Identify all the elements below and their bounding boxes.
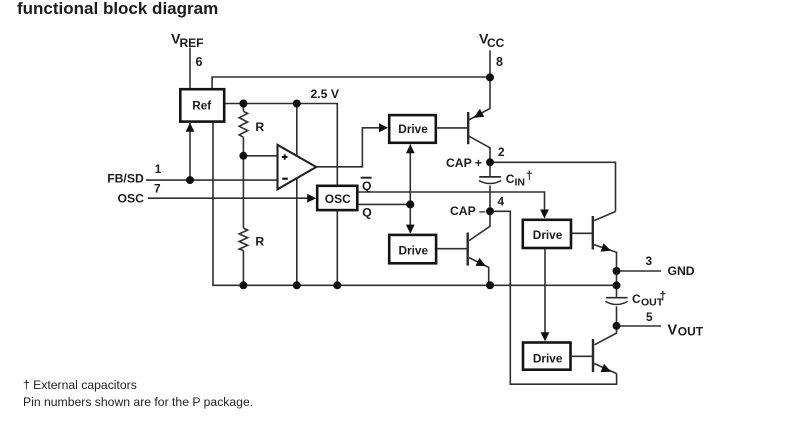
svg-text:†: † (660, 289, 667, 303)
wire Q from OSC to junction (357, 203, 410, 205)
capacitor COUT (605, 298, 627, 305)
wire VCC stub (489, 50, 491, 77)
junction node CAP- (486, 207, 494, 215)
transistor Q2 collector wire (469, 211, 490, 240)
junction node rail R2 (239, 281, 247, 289)
transistor Q4 base bar (592, 339, 594, 372)
block OSC (317, 186, 357, 210)
wire vertical from Drive3 to Drive4 (544, 249, 546, 333)
junction node VCC (486, 73, 494, 81)
transistor Q2 base bar (467, 233, 469, 266)
junction node Q to drives (406, 200, 414, 208)
block Drive4 (523, 343, 571, 370)
svg-text:Drive: Drive (398, 122, 428, 136)
svg-text:Drive: Drive (533, 228, 563, 242)
arrow into OSC input (307, 194, 316, 203)
wire op-amp + input (243, 155, 277, 157)
junction node GND pin (613, 267, 621, 275)
svg-text:OSC: OSC (118, 191, 145, 205)
wire OSC box bottom to ground rail (336, 210, 338, 285)
svg-text:FB/SD: FB/SD (107, 172, 144, 186)
wire FB/SD branch up to Ref bottom (189, 123, 191, 180)
svg-text:2: 2 (498, 145, 505, 159)
junction node FB/SD-Ref (186, 176, 194, 184)
wire CAP- node to Q4 emitter path (490, 211, 617, 384)
svg-text:CAP –: CAP – (450, 204, 486, 218)
block Drive2 (389, 235, 436, 263)
label COUT (632, 289, 666, 309)
svg-text:CAP +: CAP + (446, 156, 482, 170)
resistor R2 (239, 228, 247, 250)
wire CAP+ line to Q3 collector (490, 162, 616, 211)
wire Qbar from OSC to Drive3 (357, 192, 544, 210)
svg-text:C: C (506, 172, 515, 186)
footnote package note (23, 395, 253, 409)
wire Q1 base (437, 127, 467, 129)
junction node rail mid (293, 281, 301, 289)
transistor Q3 emitter arrow (NPN) (601, 243, 612, 252)
wire Q4 base (572, 355, 593, 357)
capacitor CIN (479, 177, 501, 184)
svg-text:CC: CC (487, 36, 505, 50)
transistor Q4 emitter arrow (NPN) (601, 364, 612, 372)
svg-text:6: 6 (196, 55, 203, 69)
wire FB/SD input to op-amp - input (146, 179, 278, 181)
svg-text:Drive: Drive (533, 351, 563, 365)
block Ref (180, 89, 224, 121)
svg-text:GND: GND (668, 264, 695, 278)
transistor Q3 base bar (592, 216, 594, 250)
block Drive3 (523, 220, 571, 248)
junction node op-amp + input (239, 152, 247, 160)
wire Ref ground and bottom rail (213, 121, 617, 285)
wire R divider chain stubs (242, 104, 244, 286)
svg-text:OUT: OUT (678, 324, 704, 338)
wire vertical between Drive1 and Drive2 (409, 145, 411, 234)
wire COUT bottom to VOUT node (616, 306, 618, 326)
junction node rail GND (613, 281, 621, 289)
svg-text:IN: IN (515, 177, 526, 189)
svg-text:Q: Q (362, 179, 371, 193)
transistor Q2 emitter arrow (NPN) (476, 258, 487, 266)
wire Q3 base (572, 232, 592, 234)
wire OSC pin input (148, 197, 309, 199)
junction node rail OSC (333, 281, 341, 289)
wire Q2 base (437, 248, 467, 250)
arrow into Ref bottom (186, 123, 195, 132)
title (17, 0, 218, 19)
label Qbar (361, 178, 372, 194)
transistor Q3 emitter wire (594, 245, 617, 271)
wire GND pin (617, 270, 662, 272)
wire op-amp output to Drive1 (316, 128, 380, 167)
label CIN (506, 169, 533, 189)
arrow into Drive2 top (406, 225, 415, 234)
svg-text:8: 8 (496, 55, 503, 69)
transistor Q1 emitter arrow (PNP) (474, 109, 485, 118)
arrow into Drive3 top (540, 210, 549, 219)
wire top rail from Ref box top to VCC node (212, 77, 490, 89)
op-amp U1 (278, 145, 317, 190)
transistor Q4 emitter wire (594, 364, 616, 374)
wire mid vertical from 2.5V line to rail (behind op-amp) (296, 104, 298, 286)
svg-text:REF: REF (180, 36, 204, 50)
junction node rail Q2 (486, 281, 494, 289)
transistor Q1 emitter wire (469, 77, 490, 120)
svg-text:Q: Q (362, 205, 371, 219)
arrow into Drive1 bottom (406, 144, 415, 153)
wire CIN top (489, 162, 491, 176)
label VCC (479, 32, 505, 50)
wire CIN bottom to CAP- node (489, 186, 491, 212)
arrow into Drive4 top (541, 332, 550, 341)
svg-text:5: 5 (646, 310, 653, 324)
svg-text:V: V (668, 323, 678, 339)
svg-text:OSC: OSC (325, 192, 351, 206)
wire Ref output to 2.5V node down to OSC top (225, 104, 338, 186)
svg-text:R: R (255, 234, 264, 248)
transistor Q4 collector wire (595, 326, 617, 345)
svg-text:1: 1 (155, 162, 162, 176)
transistor Q3 collector diagonal (594, 212, 616, 221)
junction node 2.5V mid (293, 100, 301, 108)
footnote external capacitors (23, 378, 137, 392)
wire GND node to COUT (616, 271, 618, 297)
arrow into Drive1 left (379, 123, 388, 132)
svg-text:Drive: Drive (399, 243, 429, 257)
transistor Q2 emitter wire (469, 258, 489, 286)
resistor R1 (239, 111, 247, 137)
transistor Q1 collector wire (469, 136, 490, 162)
svg-text:4: 4 (498, 194, 505, 208)
junction node VOUT pin (613, 322, 621, 330)
svg-text:2.5 V: 2.5 V (311, 87, 340, 101)
junction node R1 top (239, 100, 247, 108)
svg-text:R: R (255, 120, 264, 134)
label VOUT (668, 323, 704, 339)
svg-text:7: 7 (154, 182, 161, 196)
svg-text:3: 3 (646, 254, 653, 268)
wire VREF stub (189, 48, 191, 89)
label VREF (171, 32, 204, 50)
svg-text:C: C (632, 292, 641, 306)
wire VOUT pin (617, 325, 662, 327)
svg-text:Ref: Ref (192, 100, 211, 113)
junction node CAP+ (486, 158, 494, 166)
transistor Q1 base bar (467, 112, 469, 144)
svg-text:†: † (526, 169, 533, 183)
block Drive1 (389, 115, 436, 143)
